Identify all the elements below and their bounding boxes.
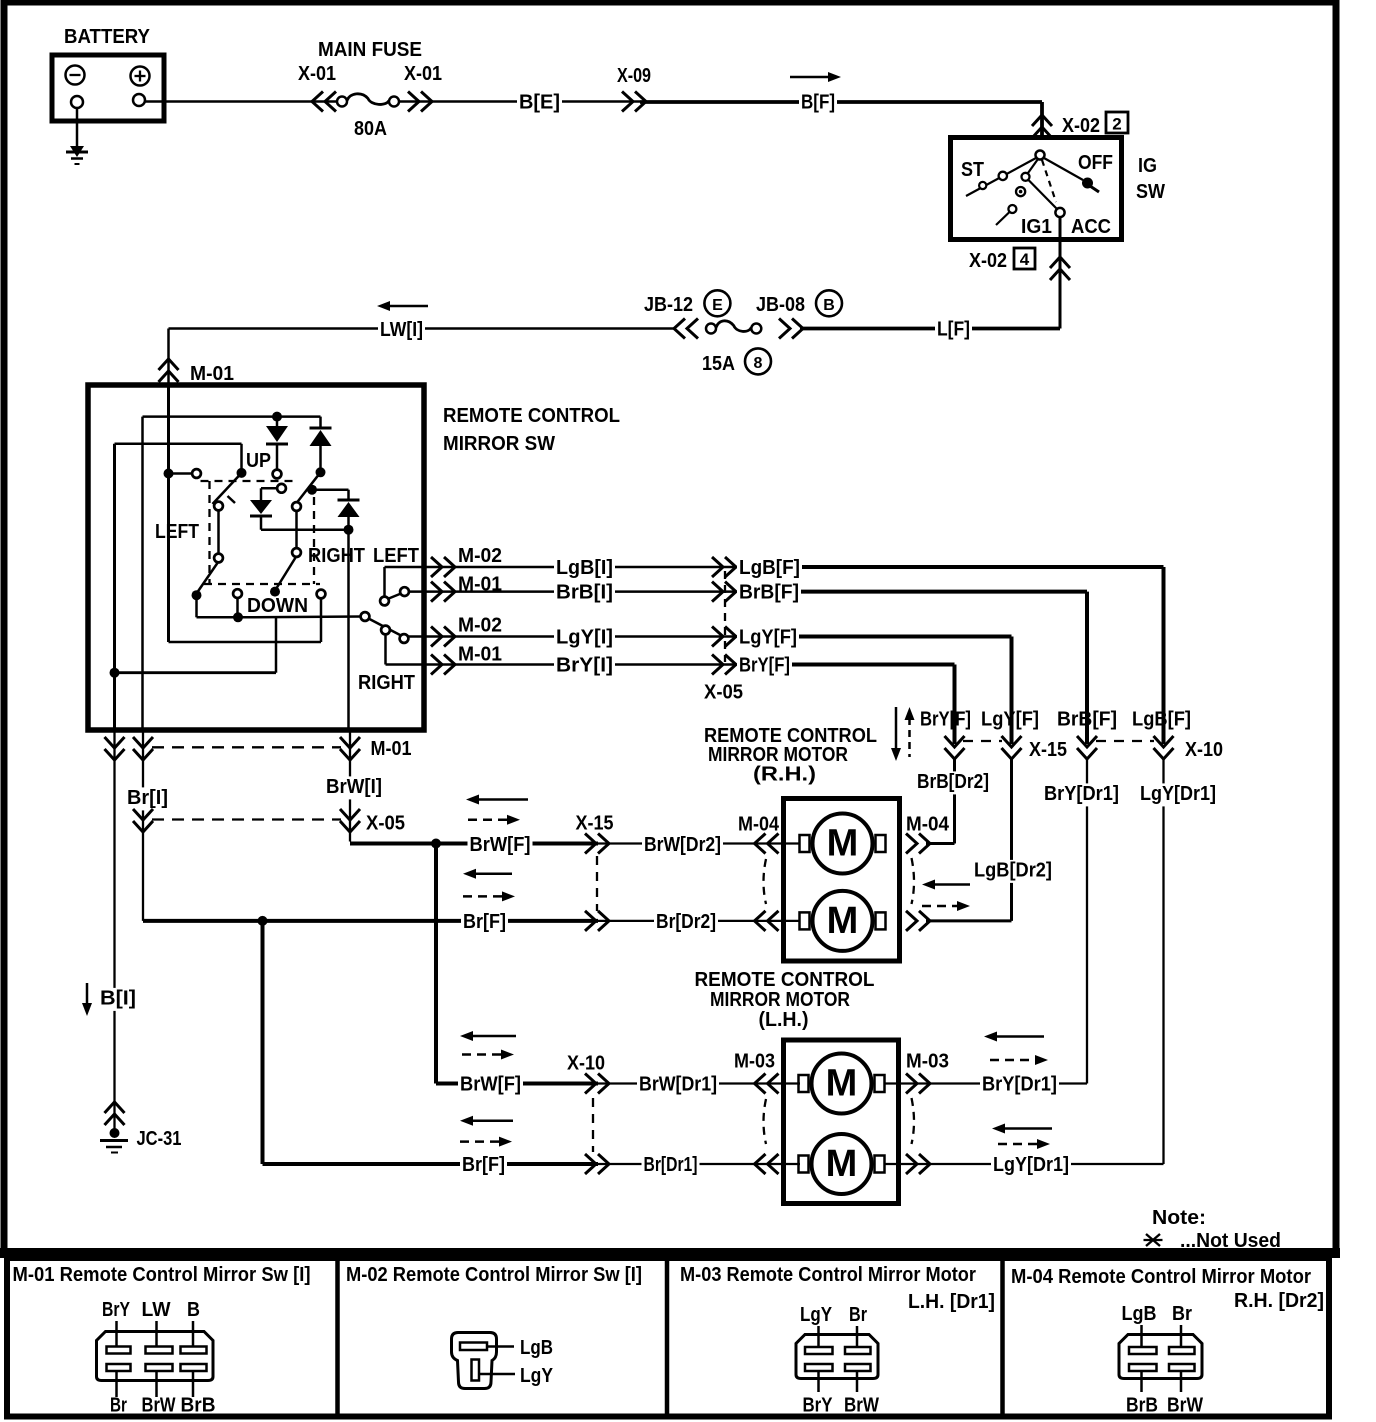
- DOWN common wiring: [197, 595, 363, 622]
- svg-text:M-01 Remote Control Mirror Sw: M-01 Remote Control Mirror Sw [I]: [13, 1264, 311, 1286]
- svg-text:BrW: BrW: [142, 1395, 176, 1417]
- connector X-10 (door L.H.): [1077, 736, 1223, 761]
- connector X-15 (door R.H.): [945, 736, 1068, 761]
- UP switch common: [237, 444, 247, 478]
- svg-text:X-05: X-05: [366, 813, 405, 835]
- svg-text:LgY: LgY: [520, 1365, 554, 1387]
- svg-text:B[F]: B[F]: [801, 92, 835, 114]
- wire B[F]: [640, 72, 1042, 115]
- svg-text:X-05: X-05: [704, 682, 743, 704]
- X-10 dashed link: [592, 1098, 594, 1152]
- svg-text:JB-08: JB-08: [756, 294, 805, 316]
- IG SW common pivot: [1036, 151, 1045, 160]
- svg-text:X-02: X-02: [1062, 115, 1100, 137]
- svg-text:M: M: [826, 1143, 858, 1185]
- connector X-02 pin 2: [1032, 112, 1128, 138]
- wire LgY[Dr1] vertical: [1138, 759, 1218, 1164]
- wire LgY[Dr1] from motor: [884, 1124, 1164, 1178]
- output switch RIGHT: [358, 612, 415, 694]
- svg-text:OFF: OFF: [1078, 152, 1113, 174]
- wire from LW vertical to DOWN right contact: [169, 598, 322, 643]
- wire LgY[I]: [408, 615, 737, 650]
- ground JC-31: [100, 1098, 182, 1153]
- connector JB-08: [756, 290, 842, 338]
- svg-text:LgB[I]: LgB[I]: [556, 557, 613, 579]
- IG SW IG1 contacts: [996, 159, 1057, 238]
- connector M-01 pinout (table cell 1): [13, 1264, 311, 1417]
- M-03 left chevrons: [755, 1074, 779, 1175]
- remote control mirror motor L.H. title: [695, 969, 875, 1031]
- IG SW ACC contact (selected, dashed blade): [1042, 160, 1111, 238]
- svg-text:M-01: M-01: [458, 574, 502, 596]
- svg-text:R.H. [Dr2]: R.H. [Dr2]: [1234, 1290, 1324, 1312]
- svg-text:(L.H.): (L.H.): [759, 1009, 809, 1031]
- svg-text:8: 8: [754, 355, 763, 372]
- svg-text:M-04: M-04: [738, 814, 780, 836]
- svg-text:Note:: Note:: [1152, 1207, 1206, 1229]
- svg-text:Br[Dr1]: Br[Dr1]: [644, 1154, 698, 1176]
- svg-text:MIRROR MOTOR: MIRROR MOTOR: [710, 989, 850, 1011]
- svg-text:LgB[F]: LgB[F]: [1132, 709, 1191, 731]
- svg-text:4: 4: [1020, 250, 1030, 269]
- wire B[I]: [82, 731, 138, 1098]
- connector X-15 chevrons (BrW): [576, 813, 614, 854]
- svg-text:ACC: ACC: [1071, 216, 1111, 238]
- wire BrW[F] lower (to L.H.): [436, 844, 598, 1097]
- connector X-15 chevrons (Br): [585, 911, 609, 931]
- wire Br[F] upper horizontal: [143, 869, 598, 935]
- svg-text:M-01: M-01: [371, 738, 412, 760]
- svg-text:BrY[I]: BrY[I]: [556, 655, 613, 677]
- R.H. mirror motor (vertical) M: [800, 891, 886, 951]
- ignition switch IG SW box: [951, 138, 1122, 240]
- LEFT label: [155, 521, 199, 543]
- svg-text:X-02: X-02: [969, 250, 1007, 272]
- svg-text:BrB[F]: BrB[F]: [1057, 709, 1117, 731]
- wire BrY[Dr1] from motor: [884, 1032, 1087, 1097]
- svg-text:LgB: LgB: [1122, 1303, 1157, 1325]
- fuse 15A circuit 8: [702, 321, 771, 375]
- svg-text:B: B: [187, 1299, 200, 1321]
- svg-text:BrB[I]: BrB[I]: [556, 582, 613, 604]
- switch feed wire (vertical, LW): [167, 386, 170, 642]
- svg-text:LgY[F]: LgY[F]: [739, 627, 797, 649]
- svg-text:LW: LW: [142, 1299, 171, 1321]
- direction arrows (vertical pair): [891, 707, 915, 761]
- connector X-05 pin (BrB): [712, 582, 736, 602]
- svg-text:BrY[F]: BrY[F]: [739, 655, 790, 677]
- wire BrW[F] upper horizontal: [350, 795, 598, 858]
- svg-text:BrY: BrY: [803, 1395, 834, 1417]
- wire BrB[I]: [409, 574, 738, 606]
- svg-text:E: E: [712, 297, 723, 314]
- svg-text:LgB: LgB: [520, 1337, 553, 1359]
- svg-text:LgY: LgY: [800, 1304, 833, 1326]
- connector X-05 (floor, left): [133, 809, 405, 835]
- X-15 dashed link: [596, 856, 598, 911]
- lower interior bus: [110, 617, 277, 677]
- svg-text:BrB[Dr2]: BrB[Dr2]: [917, 771, 989, 793]
- connector X-01 (right half): [404, 63, 442, 112]
- svg-text:BrY: BrY: [102, 1299, 131, 1321]
- wire BrY[Dr1] vertical: [1042, 759, 1121, 1084]
- battery: [52, 26, 164, 121]
- svg-text:M-01: M-01: [458, 644, 502, 666]
- svg-text:BrY[F]: BrY[F]: [920, 709, 971, 731]
- svg-text:M-04 Remote Control Mirror Mot: M-04 Remote Control Mirror Motor: [1011, 1266, 1311, 1288]
- svg-text:B: B: [823, 297, 835, 314]
- svg-text:Br[I]: Br[I]: [127, 787, 168, 809]
- svg-text:BrW[F]: BrW[F]: [470, 834, 531, 856]
- svg-text:Br: Br: [849, 1304, 867, 1326]
- connector X-05 pin (LgY): [712, 627, 736, 647]
- diode D1 (UP, left): [266, 412, 288, 479]
- svg-text:X-01: X-01: [298, 63, 336, 85]
- svg-text:L[F]: L[F]: [937, 319, 970, 341]
- connector X-05 pin (BrY): [712, 655, 736, 675]
- wire Br[F] lower (to L.H.): [263, 921, 599, 1178]
- wire LgB[Dr2]: [922, 759, 1054, 921]
- wire BrW[Dr1]: [598, 1074, 800, 1097]
- svg-text:BrW: BrW: [1167, 1395, 1203, 1417]
- wire from ACC down: [1059, 217, 1062, 329]
- svg-text:ST: ST: [961, 159, 984, 181]
- svg-text:BrB: BrB: [1126, 1395, 1158, 1417]
- wire LgB[I]: [385, 545, 738, 580]
- connector M-01 (switch top): [159, 359, 235, 385]
- svg-text:M-03 Remote Control Mirror Mot: M-03 Remote Control Mirror Motor: [680, 1264, 976, 1286]
- IG SW OFF contact arm: [1044, 152, 1113, 192]
- svg-text:BrW[Dr1]: BrW[Dr1]: [639, 1074, 717, 1096]
- UP switch left contact: [164, 469, 201, 479]
- L.H. mirror motor (horizontal) M: [799, 1054, 885, 1114]
- svg-text:RIGHT: RIGHT: [308, 545, 365, 567]
- svg-text:IG1: IG1: [1021, 216, 1052, 238]
- svg-text:REMOTE CONTROL: REMOTE CONTROL: [443, 405, 620, 427]
- svg-text:L.H. [Dr1]: L.H. [Dr1]: [908, 1291, 995, 1313]
- switch inner second bus wire: [115, 444, 242, 731]
- svg-text:80A: 80A: [354, 118, 387, 140]
- svg-text:LEFT: LEFT: [373, 545, 419, 567]
- connector M-03 pinout (table cell 3): [680, 1264, 995, 1417]
- svg-text:RIGHT: RIGHT: [358, 672, 415, 694]
- connector M-04 labels: [738, 814, 950, 836]
- svg-text:BrB[F]: BrB[F]: [739, 582, 799, 604]
- connector M-03 labels: [734, 1051, 949, 1073]
- RIGHT blade to DOWN row: [276, 556, 297, 589]
- wire LgB[F] vertical: [1132, 567, 1191, 744]
- svg-text:M-02: M-02: [458, 615, 502, 637]
- svg-text:Br[F]: Br[F]: [463, 911, 506, 933]
- svg-text:15A: 15A: [702, 353, 735, 375]
- connector X-05 pin (LgB): [712, 557, 736, 577]
- DOWN switch row: [192, 587, 326, 617]
- note: not used legend: [1144, 1207, 1282, 1252]
- svg-text:2: 2: [1112, 115, 1121, 134]
- svg-text:JB-12: JB-12: [644, 294, 693, 316]
- svg-text:BATTERY: BATTERY: [64, 26, 151, 48]
- svg-text:SW: SW: [1136, 181, 1165, 203]
- IG SW label: [1136, 155, 1165, 203]
- connector X-10 chevrons (BrW): [567, 1053, 609, 1094]
- R.H. mirror motor (horizontal) M: [800, 814, 886, 874]
- connector M-04 pinout (table cell 4): [1011, 1266, 1324, 1417]
- svg-text:LgY[Dr1]: LgY[Dr1]: [993, 1154, 1069, 1176]
- switch inner top bus wire: [143, 417, 321, 731]
- svg-text:X-09: X-09: [617, 65, 651, 87]
- svg-text:Br: Br: [1172, 1303, 1192, 1325]
- connector X-10 chevrons (Br): [585, 1154, 609, 1174]
- svg-text:M: M: [827, 900, 859, 942]
- svg-text:LgY[Dr1]: LgY[Dr1]: [1140, 783, 1216, 805]
- svg-text:DOWN: DOWN: [247, 595, 308, 617]
- svg-text:M-03: M-03: [734, 1051, 775, 1073]
- svg-text:B[E]: B[E]: [519, 92, 560, 114]
- svg-text:MIRROR SW: MIRROR SW: [443, 433, 555, 455]
- diode D3 (lower left): [250, 484, 286, 530]
- diode D4 (lower right): [307, 485, 360, 527]
- RIGHT mirror selector contacts: [292, 502, 301, 557]
- svg-text:X-01: X-01: [404, 63, 442, 85]
- svg-text:LgB[Dr2]: LgB[Dr2]: [974, 860, 1052, 882]
- R.H. motor box: [784, 799, 900, 962]
- connector JB-12: [644, 290, 730, 338]
- diode D2 (UP, right): [310, 417, 332, 468]
- wire BrB[F] horizontal: [737, 582, 1087, 605]
- svg-text:LgY[F]: LgY[F]: [981, 709, 1039, 731]
- IG SW ST contact arm: [961, 158, 1036, 196]
- L.H. mirror motor (vertical) M: [799, 1134, 885, 1194]
- LEFT blade to DOWN row: [198, 562, 219, 593]
- M-03 right chevrons: [906, 1074, 930, 1175]
- wire BrY[F] vertical: [920, 665, 971, 745]
- M-04 connector dashed links: [764, 858, 915, 904]
- wire Br[I]: [125, 731, 170, 921]
- svg-text:BrW: BrW: [844, 1395, 879, 1417]
- svg-text:UP: UP: [246, 450, 271, 472]
- svg-text:X-15: X-15: [1029, 739, 1067, 761]
- remote control mirror motor R.H. title: [704, 725, 877, 786]
- svg-text:LW[I]: LW[I]: [380, 319, 423, 341]
- svg-text:X-10: X-10: [567, 1053, 605, 1075]
- svg-text:M-01: M-01: [190, 363, 234, 385]
- svg-text:M: M: [826, 1063, 858, 1105]
- M-04 right chevrons: [906, 834, 930, 931]
- wire BrB[F] vertical: [1057, 592, 1117, 744]
- connector M-02 pinout (table cell 2): [346, 1264, 642, 1389]
- remote control mirror switch box: [88, 385, 620, 730]
- svg-text:LgB[F]: LgB[F]: [739, 557, 800, 579]
- wire BrY[I]: [386, 644, 738, 678]
- svg-text:B[I]: B[I]: [100, 988, 136, 1010]
- wire BrW[I]: [324, 731, 384, 842]
- connector table frame: [0, 1248, 1340, 1417]
- M-03 connector dashed links: [764, 1098, 915, 1144]
- svg-text:M-02 Remote Control Mirror Sw: M-02 Remote Control Mirror Sw [I]: [346, 1264, 642, 1286]
- svg-text:LgY[I]: LgY[I]: [556, 627, 613, 649]
- svg-text:JC-31: JC-31: [137, 1128, 182, 1150]
- LEFT mirror selector contacts: [214, 502, 223, 563]
- svg-text:M-04: M-04: [906, 814, 950, 836]
- svg-text:BrB: BrB: [181, 1395, 216, 1417]
- output switch LEFT: [373, 545, 419, 605]
- UP switch blade: [213, 473, 242, 504]
- mechanical link (dashed): [201, 481, 321, 584]
- diode bottom bus: [261, 525, 354, 535]
- svg-text:Br[F]: Br[F]: [462, 1154, 505, 1176]
- battery ground: [66, 108, 88, 164]
- svg-text:X-15: X-15: [576, 813, 614, 835]
- connector X-05 label (right): [704, 571, 743, 704]
- wire B[E]: [399, 92, 640, 115]
- UP label: [246, 450, 271, 472]
- svg-text:BrY[Dr1]: BrY[Dr1]: [1044, 783, 1119, 805]
- svg-text:BrY[Dr1]: BrY[Dr1]: [982, 1074, 1057, 1096]
- wire BrW[Dr2]: [598, 834, 800, 857]
- svg-text:MAIN FUSE: MAIN FUSE: [318, 39, 422, 61]
- wire LgY[F] horizontal: [737, 627, 1012, 650]
- wire LW[I]: [169, 301, 677, 342]
- svg-text:X-10: X-10: [1185, 739, 1223, 761]
- connector X-01 (left half): [298, 63, 336, 112]
- battery B+ wire to main fuse (wire): [145, 100, 340, 103]
- RIGHT switch blade upper: [295, 467, 326, 505]
- L.H. motor box: [784, 1040, 899, 1204]
- svg-text:BrW[F]: BrW[F]: [460, 1074, 521, 1096]
- svg-text:BrW[I]: BrW[I]: [326, 776, 382, 798]
- BrW vertical inside switch: [347, 530, 350, 731]
- wire Br[Dr1]: [598, 1154, 800, 1177]
- main fuse 80A: [318, 39, 422, 140]
- wire LgY[F] vertical: [981, 637, 1039, 745]
- svg-text:Br[Dr2]: Br[Dr2]: [656, 911, 716, 933]
- wire L[F]: [800, 319, 1060, 342]
- wire Br[Dr2]: [598, 911, 800, 934]
- wire LgB[F] horizontal: [737, 557, 1164, 580]
- svg-text:M-02: M-02: [458, 545, 502, 567]
- connector X-02 pin 4: [969, 248, 1070, 280]
- connector X-09: [617, 65, 651, 112]
- svg-text:Br: Br: [110, 1395, 127, 1417]
- svg-text:IG: IG: [1138, 155, 1157, 177]
- svg-text:(R.H.): (R.H.): [753, 764, 816, 786]
- connector M-01 (switch bottom): [105, 737, 412, 760]
- wire BrB[Dr2]: [915, 759, 991, 844]
- wire from B[F] down into IG SW: [1040, 102, 1044, 140]
- M-04 left chevrons: [755, 834, 779, 931]
- svg-text:M-03: M-03: [906, 1051, 949, 1073]
- svg-text:LEFT: LEFT: [155, 521, 199, 543]
- svg-text:REMOTE CONTROL: REMOTE CONTROL: [695, 969, 875, 991]
- svg-text:BrW[Dr2]: BrW[Dr2]: [644, 834, 721, 856]
- wire LW[I] vertical to mirror switch: [167, 329, 170, 387]
- RIGHT label (inner): [308, 545, 365, 567]
- svg-text:M: M: [827, 823, 859, 865]
- wire BrY[F] horizontal: [737, 655, 955, 678]
